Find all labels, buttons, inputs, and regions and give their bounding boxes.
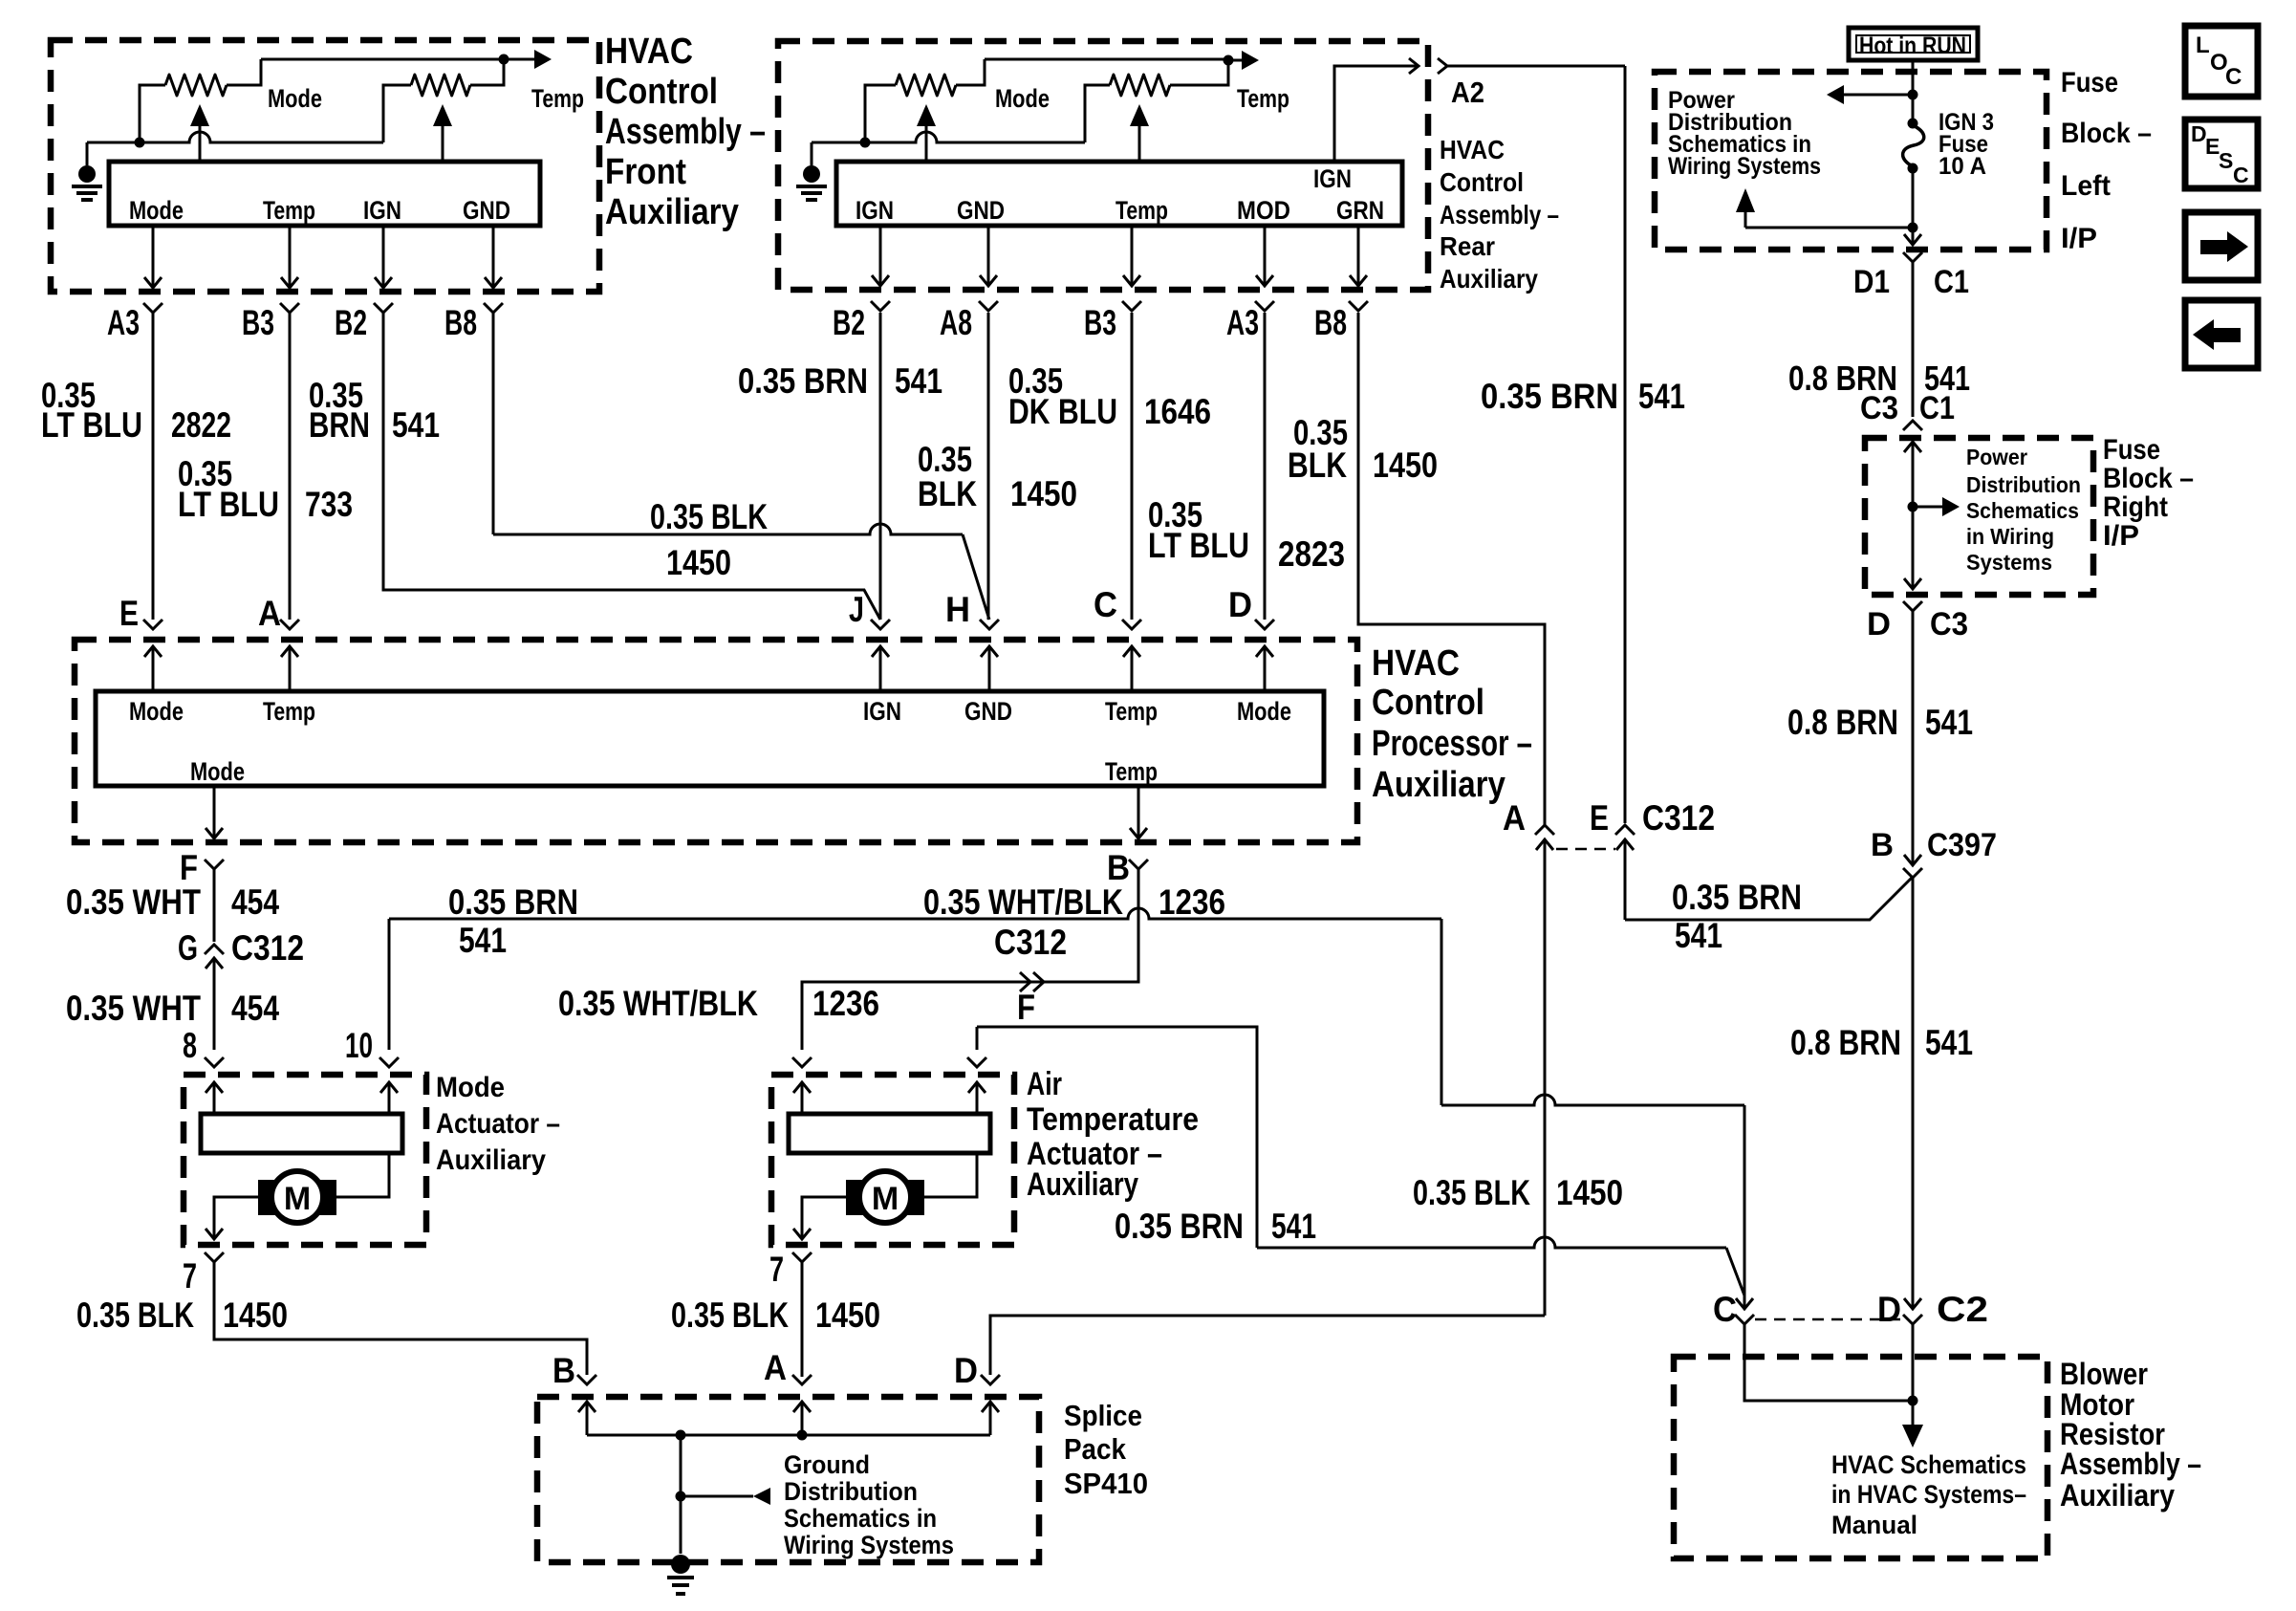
svg-text:B: B xyxy=(1871,827,1894,863)
svg-text:in Wiring: in Wiring xyxy=(1966,524,2054,549)
svg-text:Splice: Splice xyxy=(1064,1399,1142,1432)
svg-text:Mode: Mode xyxy=(129,697,184,726)
svg-text:541: 541 xyxy=(1271,1207,1316,1246)
svg-text:I/P: I/P xyxy=(2103,520,2139,552)
svg-text:0.35 WHT/BLK: 0.35 WHT/BLK xyxy=(558,984,758,1023)
svg-text:D: D xyxy=(1228,585,1252,624)
svg-text:0.8 BRN: 0.8 BRN xyxy=(1790,1023,1901,1062)
svg-text:Temp: Temp xyxy=(531,84,584,113)
svg-text:C: C xyxy=(1094,585,1117,624)
svg-text:Mode: Mode xyxy=(1237,697,1291,726)
svg-text:B2: B2 xyxy=(335,303,367,342)
svg-text:A3: A3 xyxy=(1226,303,1259,342)
svg-text:0.35 BLK: 0.35 BLK xyxy=(1413,1173,1530,1212)
svg-text:Air: Air xyxy=(1027,1066,1062,1102)
svg-text:C: C xyxy=(1713,1290,1737,1329)
svg-text:Mode: Mode xyxy=(436,1072,505,1103)
svg-text:S: S xyxy=(2219,148,2233,173)
svg-text:SP410: SP410 xyxy=(1064,1467,1148,1500)
svg-text:Mode: Mode xyxy=(129,196,184,225)
svg-text:Distribution: Distribution xyxy=(1966,472,2081,497)
svg-text:Pack: Pack xyxy=(1064,1432,1127,1466)
svg-text:8: 8 xyxy=(183,1026,197,1065)
svg-text:Schematics: Schematics xyxy=(1966,498,2079,523)
svg-text:Auxiliary: Auxiliary xyxy=(1372,765,1505,805)
svg-text:Assembly –: Assembly – xyxy=(2060,1447,2201,1481)
svg-text:Manual: Manual xyxy=(1831,1511,1917,1539)
svg-text:A: A xyxy=(1503,798,1526,838)
svg-text:Blower: Blower xyxy=(2060,1357,2148,1391)
svg-text:Hot in RUN: Hot in RUN xyxy=(1859,33,1966,59)
svg-text:C1: C1 xyxy=(1934,264,1969,300)
svg-text:LT BLU: LT BLU xyxy=(41,405,142,445)
svg-text:541: 541 xyxy=(1675,916,1722,955)
svg-text:541: 541 xyxy=(1925,1023,1973,1062)
svg-text:1236: 1236 xyxy=(812,984,879,1023)
svg-text:Assembly –: Assembly – xyxy=(1440,200,1559,229)
svg-text:IGN: IGN xyxy=(363,196,401,225)
svg-text:M: M xyxy=(284,1181,311,1217)
svg-text:0.8 BRN: 0.8 BRN xyxy=(1787,703,1898,742)
svg-text:Auxiliary: Auxiliary xyxy=(1027,1166,1138,1203)
svg-text:Front: Front xyxy=(605,152,686,192)
svg-text:C1: C1 xyxy=(1919,390,1955,426)
svg-text:I/P: I/P xyxy=(2061,223,2097,254)
svg-text:0.35 WHT: 0.35 WHT xyxy=(66,882,201,922)
svg-text:C3: C3 xyxy=(1930,606,1968,642)
svg-text:Temp: Temp xyxy=(1116,196,1168,225)
svg-text:A: A xyxy=(258,594,281,633)
svg-text:GRN: GRN xyxy=(1336,196,1384,225)
svg-text:F: F xyxy=(1017,988,1035,1027)
svg-text:0.35 BRN: 0.35 BRN xyxy=(1481,377,1618,416)
svg-text:GND: GND xyxy=(957,196,1005,225)
svg-text:10 A: 10 A xyxy=(1939,153,1986,180)
svg-text:0.35 BLK: 0.35 BLK xyxy=(650,497,768,536)
svg-text:A3: A3 xyxy=(107,303,140,342)
svg-text:Rear: Rear xyxy=(1440,231,1495,261)
svg-text:F: F xyxy=(180,848,198,887)
svg-text:541: 541 xyxy=(1638,377,1685,416)
svg-text:B3: B3 xyxy=(242,303,274,342)
svg-text:541: 541 xyxy=(895,361,942,401)
svg-text:Auxiliary: Auxiliary xyxy=(436,1144,546,1176)
svg-text:1450: 1450 xyxy=(1373,446,1438,485)
svg-text:BRN: BRN xyxy=(309,405,370,445)
svg-text:E: E xyxy=(119,594,139,633)
svg-text:Auxiliary: Auxiliary xyxy=(1440,264,1538,294)
svg-text:C312: C312 xyxy=(994,923,1067,962)
svg-text:1450: 1450 xyxy=(1010,474,1077,513)
svg-text:C: C xyxy=(2225,64,2242,90)
svg-text:0.35 BRN: 0.35 BRN xyxy=(1672,878,1802,917)
svg-text:D: D xyxy=(1867,606,1891,642)
svg-text:Temp: Temp xyxy=(1105,697,1158,726)
svg-text:Block –: Block – xyxy=(2061,118,2152,149)
svg-text:Auxiliary: Auxiliary xyxy=(2060,1478,2175,1513)
svg-text:LT BLU: LT BLU xyxy=(1148,526,1249,565)
svg-text:GND: GND xyxy=(964,697,1012,726)
svg-text:B: B xyxy=(1107,848,1130,887)
svg-text:Mode: Mode xyxy=(190,757,245,786)
svg-text:C2: C2 xyxy=(1937,1290,1988,1329)
svg-text:0.35 WHT/BLK: 0.35 WHT/BLK xyxy=(923,882,1123,922)
svg-text:Wiring Systems: Wiring Systems xyxy=(784,1531,954,1559)
svg-text:B: B xyxy=(552,1351,575,1390)
svg-text:GND: GND xyxy=(463,196,510,225)
svg-text:Control: Control xyxy=(1440,167,1524,197)
svg-text:Temp: Temp xyxy=(263,196,315,225)
svg-text:0.35 BLK: 0.35 BLK xyxy=(671,1295,789,1335)
svg-text:541: 541 xyxy=(1925,703,1973,742)
svg-text:454: 454 xyxy=(231,989,279,1028)
svg-text:Auxiliary: Auxiliary xyxy=(605,192,739,232)
svg-text:A: A xyxy=(764,1348,787,1387)
svg-text:541: 541 xyxy=(459,921,507,960)
svg-text:Systems: Systems xyxy=(1966,550,2052,575)
svg-text:Control: Control xyxy=(1372,683,1484,723)
svg-text:Assembly –: Assembly – xyxy=(605,112,766,152)
svg-text:Mode: Mode xyxy=(995,84,1050,113)
svg-text:733: 733 xyxy=(305,485,353,524)
svg-text:Temp: Temp xyxy=(263,697,315,726)
svg-text:MOD: MOD xyxy=(1237,196,1290,225)
svg-text:H: H xyxy=(945,590,970,629)
svg-text:1450: 1450 xyxy=(815,1295,880,1335)
svg-text:Ground: Ground xyxy=(784,1450,870,1479)
svg-text:Control: Control xyxy=(605,72,718,112)
svg-text:Mode: Mode xyxy=(268,84,322,113)
svg-text:B8: B8 xyxy=(1314,303,1347,342)
svg-text:2822: 2822 xyxy=(171,405,231,445)
svg-text:C312: C312 xyxy=(1642,798,1715,838)
svg-text:B3: B3 xyxy=(1084,303,1116,342)
svg-text:2823: 2823 xyxy=(1278,534,1345,574)
svg-text:B2: B2 xyxy=(833,303,865,342)
svg-text:Actuator –: Actuator – xyxy=(436,1108,560,1140)
svg-text:D1: D1 xyxy=(1853,264,1890,300)
svg-text:Fuse: Fuse xyxy=(2103,434,2160,466)
svg-text:BLK: BLK xyxy=(918,474,977,513)
svg-text:LT BLU: LT BLU xyxy=(178,485,279,524)
svg-text:M: M xyxy=(872,1181,899,1217)
svg-text:Block –: Block – xyxy=(2103,463,2194,494)
svg-text:Fuse: Fuse xyxy=(2061,67,2118,98)
svg-text:Wiring Systems: Wiring Systems xyxy=(1668,153,1821,180)
svg-text:0.35 WHT: 0.35 WHT xyxy=(66,989,201,1028)
svg-text:G: G xyxy=(178,928,198,968)
svg-text:J: J xyxy=(849,590,864,629)
svg-text:L: L xyxy=(2196,33,2210,58)
svg-text:0.35 BLK: 0.35 BLK xyxy=(76,1295,194,1335)
svg-text:D: D xyxy=(954,1351,978,1390)
svg-text:in HVAC Systems–: in HVAC Systems– xyxy=(1831,1480,2026,1509)
svg-text:IGN: IGN xyxy=(863,697,901,726)
svg-text:1646: 1646 xyxy=(1144,392,1211,431)
svg-text:1236: 1236 xyxy=(1159,882,1225,922)
svg-text:1450: 1450 xyxy=(1556,1173,1623,1212)
svg-text:10: 10 xyxy=(345,1026,373,1065)
svg-text:Left: Left xyxy=(2061,170,2111,202)
svg-text:Distribution: Distribution xyxy=(784,1477,918,1506)
svg-text:1450: 1450 xyxy=(223,1295,288,1335)
svg-text:1450: 1450 xyxy=(666,543,731,582)
svg-text:7: 7 xyxy=(183,1256,197,1295)
svg-text:DK BLU: DK BLU xyxy=(1008,392,1117,431)
svg-text:0.35 BRN: 0.35 BRN xyxy=(1115,1207,1244,1246)
svg-text:0.35: 0.35 xyxy=(918,440,972,479)
svg-text:C397: C397 xyxy=(1927,827,1997,863)
svg-text:BLK: BLK xyxy=(1288,446,1347,485)
svg-text:7: 7 xyxy=(769,1250,784,1289)
svg-text:A2: A2 xyxy=(1451,76,1484,109)
svg-text:Temp: Temp xyxy=(1105,757,1158,786)
svg-text:Right: Right xyxy=(2103,491,2168,523)
svg-text:E: E xyxy=(1590,798,1609,838)
svg-text:Processor –: Processor – xyxy=(1372,724,1532,764)
svg-text:Temp: Temp xyxy=(1237,84,1289,113)
svg-text:0.35 BRN: 0.35 BRN xyxy=(738,361,868,401)
svg-text:IGN: IGN xyxy=(1313,164,1352,193)
svg-text:C3: C3 xyxy=(1860,390,1898,426)
svg-text:Temperature: Temperature xyxy=(1027,1101,1199,1138)
svg-text:D: D xyxy=(1877,1290,1901,1329)
svg-text:0.35 BRN: 0.35 BRN xyxy=(448,882,578,922)
svg-text:541: 541 xyxy=(392,405,440,445)
svg-text:454: 454 xyxy=(231,882,279,922)
svg-text:HVAC Schematics: HVAC Schematics xyxy=(1831,1450,2026,1479)
svg-text:Power: Power xyxy=(1966,445,2027,469)
svg-text:C: C xyxy=(2233,163,2249,187)
svg-text:B8: B8 xyxy=(444,303,477,342)
svg-text:HVAC: HVAC xyxy=(1440,135,1505,164)
svg-text:HVAC: HVAC xyxy=(1372,643,1460,684)
svg-text:HVAC: HVAC xyxy=(605,32,693,72)
svg-text:A8: A8 xyxy=(940,303,972,342)
svg-text:IGN: IGN xyxy=(856,196,894,225)
svg-text:C312: C312 xyxy=(231,928,304,968)
svg-text:Schematics in: Schematics in xyxy=(784,1504,937,1533)
